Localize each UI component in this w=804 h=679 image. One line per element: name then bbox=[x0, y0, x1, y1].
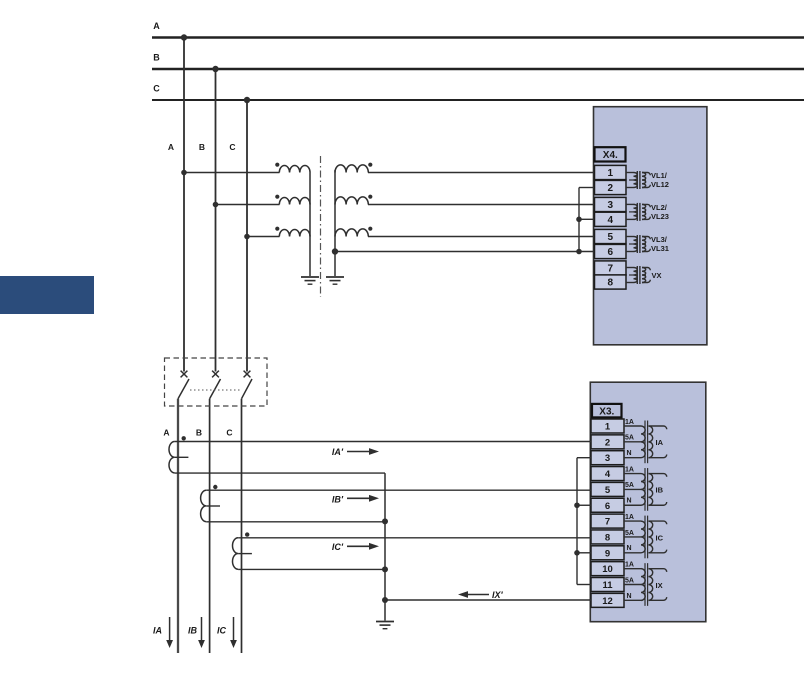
svg-text:VL31: VL31 bbox=[651, 244, 669, 253]
svg-text:10: 10 bbox=[602, 564, 613, 575]
svg-text:5: 5 bbox=[605, 485, 611, 496]
svg-text:A: A bbox=[163, 428, 169, 438]
svg-text:IB: IB bbox=[188, 626, 198, 636]
svg-text:5: 5 bbox=[608, 232, 614, 243]
svg-text:4: 4 bbox=[605, 469, 611, 480]
svg-text:N: N bbox=[627, 498, 632, 505]
svg-text:1A: 1A bbox=[625, 561, 634, 568]
svg-text:VX: VX bbox=[652, 271, 662, 280]
svg-text:7: 7 bbox=[608, 264, 614, 275]
svg-text:C: C bbox=[226, 428, 232, 438]
svg-text:VL3/: VL3/ bbox=[651, 235, 668, 244]
svg-text:2: 2 bbox=[605, 437, 610, 448]
svg-text:IA: IA bbox=[153, 626, 162, 636]
svg-text:A: A bbox=[168, 142, 174, 152]
svg-text:N: N bbox=[627, 450, 632, 457]
svg-text:C: C bbox=[229, 142, 235, 152]
svg-text:IX′: IX′ bbox=[492, 590, 504, 600]
svg-text:12: 12 bbox=[602, 596, 613, 607]
svg-text:VL12: VL12 bbox=[651, 180, 669, 189]
svg-text:5A: 5A bbox=[625, 435, 634, 442]
svg-text:8: 8 bbox=[605, 532, 610, 543]
svg-text:A: A bbox=[153, 21, 160, 31]
svg-text:11: 11 bbox=[602, 580, 613, 591]
svg-text:VL2/: VL2/ bbox=[651, 203, 668, 212]
svg-text:B: B bbox=[199, 142, 205, 152]
svg-text:1A: 1A bbox=[625, 419, 634, 426]
svg-text:C: C bbox=[153, 84, 160, 94]
svg-text:8: 8 bbox=[608, 278, 614, 289]
svg-text:IB: IB bbox=[656, 486, 664, 495]
svg-text:5A: 5A bbox=[625, 482, 634, 489]
svg-text:9: 9 bbox=[605, 548, 610, 559]
svg-text:1A: 1A bbox=[625, 466, 634, 473]
svg-text:IA′: IA′ bbox=[332, 447, 344, 457]
svg-text:X4.: X4. bbox=[603, 150, 618, 161]
svg-text:IC′: IC′ bbox=[332, 542, 344, 552]
svg-text:2: 2 bbox=[608, 183, 614, 194]
svg-text:N: N bbox=[627, 593, 632, 600]
svg-text:IX: IX bbox=[656, 581, 663, 590]
svg-text:5A: 5A bbox=[625, 577, 634, 584]
svg-text:X3.: X3. bbox=[599, 406, 614, 417]
svg-text:1: 1 bbox=[605, 422, 611, 433]
svg-text:IC: IC bbox=[656, 533, 664, 542]
svg-text:3: 3 bbox=[608, 200, 614, 211]
svg-text:IB′: IB′ bbox=[332, 495, 344, 505]
svg-text:5A: 5A bbox=[625, 530, 634, 537]
svg-text:B: B bbox=[153, 53, 160, 63]
svg-text:N: N bbox=[627, 545, 632, 552]
svg-text:IA: IA bbox=[656, 438, 664, 447]
svg-text:IC: IC bbox=[217, 626, 227, 636]
svg-text:1: 1 bbox=[608, 168, 614, 179]
svg-text:6: 6 bbox=[605, 501, 610, 512]
svg-text:6: 6 bbox=[608, 247, 614, 258]
svg-text:7: 7 bbox=[605, 517, 610, 528]
svg-text:VL1/: VL1/ bbox=[651, 171, 668, 180]
svg-text:B: B bbox=[196, 428, 202, 438]
svg-text:4: 4 bbox=[608, 215, 614, 226]
svg-text:VL23: VL23 bbox=[651, 212, 669, 221]
svg-text:1A: 1A bbox=[625, 514, 634, 521]
svg-text:3: 3 bbox=[605, 453, 610, 464]
